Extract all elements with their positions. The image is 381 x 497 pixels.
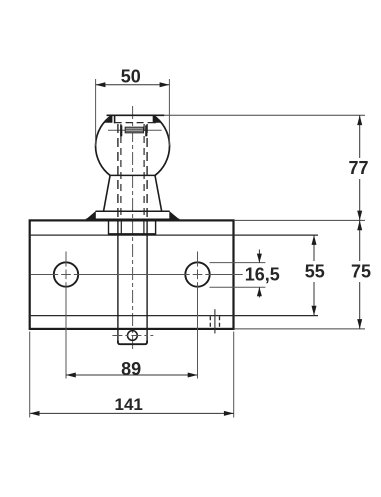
dim 75 arrow down [357,319,362,329]
dim 50 line [96,84,170,86]
right hole circle [185,262,209,286]
dim 50 arrow left [96,82,106,87]
hidden flange hole dashed right [219,316,221,328]
pin-hole tick left [120,125,122,136]
svg-text:75: 75 [351,262,371,282]
right hole vertical centerline / extension to 89 dim [197,252,199,379]
dim 16,5 arrow up [257,287,262,296]
cross-pin hole centerline horizontal [108,129,162,131]
ball left shoulder wedge [105,115,113,123]
recess left wall [114,115,116,123]
recess bottom hidden dashed line [115,122,155,124]
svg-text:89: 89 [121,359,141,379]
nut right edge [155,220,157,235]
dim 77 arrow up [357,115,362,125]
neck top line [110,174,155,176]
svg-text:141: 141 [115,395,143,414]
centerline vertical main axis [132,106,134,351]
dim 16,5 arrow line top [258,250,260,263]
pin-hole tick right [145,125,147,136]
dim 16,5 extension line top [210,262,266,264]
shank hidden outer dashed line left [117,124,119,219]
flange top line [96,210,170,212]
plate upper inner line with extension [29,234,318,236]
cotter pin hole horizontal centerline [112,335,153,337]
dim 55 line upper part [313,235,315,261]
cross-pin section rectangle [125,127,143,133]
svg-text:77: 77 [348,158,368,178]
nut left edge [108,220,110,235]
recess right wall [154,115,156,123]
ball right shoulder wedge [153,115,161,123]
svg-text:50: 50 [121,67,141,87]
shank hidden inner dashed line right [143,124,145,219]
dim 89 arrow right [188,373,198,378]
shank hidden inner dashed line left [120,124,122,219]
shank solid edge right through plate [146,220,148,344]
ball flat top line with right extension line [107,114,365,116]
dim 77 arrow down [357,211,362,221]
shank hidden outer dashed line right [146,124,148,219]
dim 16,5 arrow line bottom [258,287,260,297]
dim 16,5 extension line bottom [210,286,266,288]
dim 89 arrow left [66,373,76,378]
dim 55 arrow down [312,306,317,316]
shank bottom end line [118,341,147,345]
neck right slant [155,175,162,211]
dim 77 line lower part [359,179,361,220]
dim 55 line lower part [313,282,315,316]
nut inner facet left [120,222,122,235]
neck left slant [104,175,111,211]
plate outline [30,220,234,329]
nut bottom thick line [109,233,156,235]
dim 50 arrow right [160,82,170,87]
dim 141 arrow right [224,411,234,416]
dim 141 extension line left [29,332,31,418]
plate bottom extension line to right [234,328,366,330]
dim 55 arrow up [312,235,317,245]
dim 50 extension line right [168,79,170,146]
plate top extension line to right [234,219,366,221]
dim 16,5 arrow down [257,254,262,263]
flange bottom line [86,218,179,220]
nut inner facet right [143,222,145,235]
svg-text:16,5: 16,5 [245,264,280,284]
flange left chamfer wedge [86,211,96,220]
dim 75 arrow up [357,220,362,230]
dim 141 extension line right [233,332,235,418]
svg-text:55: 55 [305,262,325,282]
plate lower inner line with extension [29,315,318,317]
dim 141 arrow left [30,411,40,416]
dim 141 line [30,412,234,414]
left hole vertical centerline / extension to 89 dim [65,252,67,379]
dim 75 line upper part [359,220,361,261]
dim 89 line [66,374,198,376]
hidden flange hole dashed left [209,316,211,328]
ball left arc [96,115,112,175]
shank solid edge left through plate [117,220,119,344]
holes horizontal centerline [31,274,243,276]
hidden flange hole centerline [214,309,216,333]
ball right arc [153,115,169,175]
flange right chamfer wedge [169,211,179,220]
cotter pin hole circle [127,331,137,341]
dim 77 line upper part [359,115,361,158]
dim 50 extension line left [95,79,97,146]
left hole circle [54,262,78,286]
dim 75 line lower part [359,282,361,329]
